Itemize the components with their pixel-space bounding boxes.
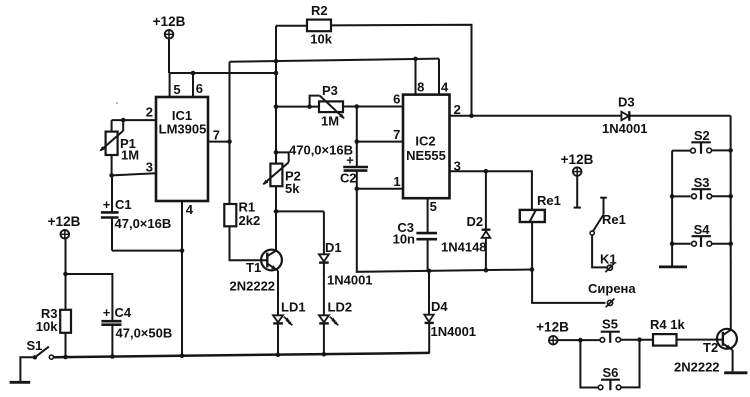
svg-text:C2: C2 [340,171,357,186]
power terminal +12V (left, R3/C4 branch) [61,230,70,239]
svg-text:S2: S2 [694,128,710,143]
wire IC1 pin 4 down to ground bus [181,201,183,356]
wire P2 bottom to T1 collector [275,186,277,250]
junction D4 / ground line [427,269,432,274]
svg-text:7: 7 [393,127,400,142]
junction S6 right branch [637,337,642,342]
svg-text:D4: D4 [431,299,448,314]
svg-text:7: 7 [213,128,220,143]
svg-text:Re1: Re1 [602,212,626,227]
wire IC1 pin 2 to P1 [112,119,156,121]
junction P1 wiper / pin 2 [121,118,126,123]
wire T2 emitter to ground [732,350,734,373]
switch S6 [598,380,621,391]
P1 wiper arrowhead [100,146,106,151]
switch S5 [600,332,620,343]
P3 wiper step wire [310,96,320,107]
svg-text:Re1: Re1 [537,193,561,208]
resistor R1 body [224,204,236,226]
power terminal +12V supply of IC1 [165,30,174,39]
wire IC2 pin 4 [438,59,440,95]
junction S4 / left column [670,241,675,246]
P1 wiper tie wire [122,120,124,131]
svg-text:2N2222: 2N2222 [230,279,276,294]
wire IC2 pin 7 [357,141,403,143]
junction S6 left branch [578,338,583,343]
wire LD1 to ground bus [277,323,279,354]
junction pin 8 / top link [413,57,418,62]
capacitor C4 plates [101,321,121,325]
ground (T2) [724,371,747,374]
transistor T1 2N2222 [261,250,282,271]
P1 wiper arrow diagonal [101,131,124,151]
junction LD1 / bus [276,352,281,357]
svg-text:+12В: +12В [48,214,81,229]
wire C3 bottom to ground line [427,239,429,271]
connector terminal K1 [605,263,614,272]
scan speck [116,102,118,104]
P3 wiper diagonal [320,96,344,119]
junction relay column / ground line [530,267,535,272]
svg-text:47,0×16В: 47,0×16В [115,216,172,231]
LED LD1 [273,315,292,325]
wire +12V terminal down to supply rail [168,39,170,73]
wire C4 bottom to bus [111,325,113,357]
wire pin6 line P3 left [276,106,319,108]
switch S2 [672,142,731,154]
switch S3 [672,189,731,200]
wire D3 to right column [629,115,730,117]
svg-text:2k2: 2k2 [239,213,261,228]
ground (S1) [10,381,31,384]
wire IC2 pin 5 to C3 [427,198,429,233]
svg-text:T2: T2 [703,340,718,355]
junction pin4 column / ground bus [180,353,185,358]
diode D2 1N4148 [482,171,491,271]
junction C2 column / pin7 line [355,139,360,144]
wire IC2 pin 2 output line [450,115,622,117]
wire top link to IC2 pins 8 and 4 [230,59,440,62]
wire IC1 pin 3 [112,173,156,175]
svg-text:2: 2 [146,105,153,120]
switch S1 [33,347,54,360]
svg-text:Сирена: Сирена [588,281,636,296]
switch S4 [672,236,731,247]
junction C4 / bus [110,354,115,359]
wire IC2 pin 1 [357,188,403,190]
svg-text:S1: S1 [27,338,43,353]
svg-text:K1: K1 [600,252,617,267]
resistor R4 body [653,334,677,346]
wire IC2 pin 3 to relay [450,171,532,210]
contact terminal tick [574,207,581,209]
wire branch to C4 [66,274,113,321]
wire S1 to ground [20,357,35,382]
svg-text:+12В: +12В [153,14,186,29]
svg-text:T1: T1 [246,260,261,275]
junction R3 node / C4 branch [63,272,68,277]
wire P1 top lead [111,120,113,132]
svg-text:R2: R2 [311,3,328,18]
wire S6 left leg [580,340,598,387]
svg-text:LD1: LD1 [281,300,306,315]
capacitor C2 plates [343,167,368,171]
junction column / pin6 line [274,104,279,109]
wire C2 column lower [357,171,532,272]
svg-text:D1: D1 [325,240,342,255]
svg-text:2: 2 [454,102,461,117]
transistor T2 2N2222 [717,329,737,350]
P2 wiper diagonal [263,162,288,184]
potentiometer P1 body [106,132,118,155]
wire C2 column upper [356,107,358,168]
svg-text:LD2: LD2 [328,300,353,315]
LED LD2 [319,315,338,325]
wire P1 bottom to pin 3 line [111,155,113,175]
svg-text:LM3905: LM3905 [159,122,207,137]
diode D1 1N4001 [319,211,329,262]
svg-text:1N4001: 1N4001 [327,273,373,288]
svg-text:D2: D2 [467,214,484,229]
wire +12V down through R3 node [65,239,67,310]
potentiometer P2 body [270,164,282,187]
wire bus end up to D4 [428,323,430,354]
svg-text:2N2222: 2N2222 [674,359,720,374]
wire R1 bottom to T1 base [230,226,268,260]
svg-text:+12В: +12В [561,152,594,167]
svg-text:C1: C1 [115,197,132,212]
svg-text:470,0×16В: 470,0×16В [289,143,353,158]
svg-text:3: 3 [454,159,461,174]
junction C1 / pin4 column [180,248,185,253]
svg-text:D3: D3 [618,94,635,109]
svg-text:10k: 10k [310,32,332,47]
junction column / P2 wiper [274,150,279,155]
op-amp timer IC1 LM3905 [156,97,208,201]
junction rail / R2 column [274,71,279,76]
diode D3 1N4001 [621,111,629,121]
svg-text:S4: S4 [694,222,711,237]
junction C2 column / pin1 line [355,187,360,192]
svg-text:5: 5 [430,199,437,214]
resistor R2 body [307,20,331,32]
junction R3 / bus [63,355,68,360]
wire R3 bottom to bus [65,333,67,357]
wire IC1 pin 7 [208,141,230,143]
wire P3 right to IC2 pin 6 [343,106,403,108]
ground bus wire [54,353,430,357]
junction S4 / right column [728,241,733,246]
resistor R3 body [60,310,71,333]
svg-text:1: 1 [393,174,400,189]
P2 wiper step wire [276,152,289,162]
wire left switch column [671,151,673,267]
wire R1 column up to top link [229,62,231,204]
svg-text:4: 4 [186,202,194,217]
junction S3 / left column [670,194,675,199]
wire S6 right leg [621,340,640,388]
wire C1 bottom lead [111,218,113,251]
svg-text:IC2: IC2 [415,133,435,148]
wire C1 to pin 4 column [112,250,182,252]
svg-text:47,0×50В: 47,0×50В [116,326,173,341]
junction R2 drop / pin 2 line [469,113,474,118]
P3 wiper arrowhead [339,114,344,119]
junction S3 / right column [728,194,733,199]
wire R4 to T1 base [677,339,723,341]
wire R2 right to pin2 drop [331,25,472,116]
svg-text:10n: 10n [393,231,415,246]
svg-text:8: 8 [417,80,424,95]
svg-text:+: + [103,305,111,320]
svg-text:1M: 1M [321,114,339,129]
svg-text:1N4001: 1N4001 [431,324,477,339]
wire IC1 pin 5 [169,73,171,97]
junction D2 / ground line [484,268,489,273]
junction D2 / pin 3 line [484,169,489,174]
relay coil Re1 [520,210,545,222]
svg-text:+12В: +12В [536,319,569,334]
svg-text:5k: 5k [285,181,300,196]
wire IC2 pin 8 [415,59,417,95]
svg-text:P3: P3 [322,83,338,98]
wire contact down to K1 [592,235,607,267]
connector terminal (siren) [606,299,615,308]
wire D1 to LD2 [323,263,325,316]
wire LD2 to ground bus [323,323,325,354]
svg-text:10k: 10k [36,319,58,334]
svg-text:4: 4 [441,80,449,95]
svg-text:NE555: NE555 [406,148,446,163]
wire right column (D3 to T2 collector) [730,116,732,330]
junction S2 / right column [728,148,733,153]
potentiometer P3 body [319,101,343,112]
svg-text:6: 6 [393,92,400,107]
svg-text:R4 1k: R4 1k [650,317,685,332]
wire +12V stub to contact [576,176,578,208]
power terminal +12V (S5 branch) [549,336,558,345]
wire relay bottom to siren line [532,222,605,303]
wire supply rail to R2/P2 column [169,72,276,74]
svg-text:1N4001: 1N4001 [602,121,648,136]
svg-text:S3: S3 [694,175,710,190]
wire branch to D1 [276,210,324,212]
wire +12V to S5 [558,339,601,341]
power terminal +12V (relay contact) [573,167,582,176]
svg-text:1M: 1M [121,148,139,163]
wire T1 emitter to LD1 [277,271,279,316]
wire R2/P2 column vertical [275,26,277,164]
timer IC2 NE555 [403,95,450,199]
junction C2 column / pin6 line [355,104,360,109]
capacitor C3 plates [416,233,437,239]
svg-text:+: + [103,197,111,212]
wire S5 to R4 [621,339,654,341]
ground (switch column) [659,265,687,268]
junction P2/T1/D1 branch [274,209,279,214]
svg-text:S5: S5 [602,317,618,332]
svg-text:6: 6 [196,81,203,96]
junction LD2 / bus [322,352,327,357]
svg-text:C4: C4 [115,305,132,320]
junction top link / R2 column [274,59,279,64]
junction pin7 / R1 column [227,139,232,144]
junction pin6 rail [191,71,196,76]
P2 wiper arrowhead [263,180,269,185]
svg-text:5: 5 [173,82,180,97]
svg-text:1N4148: 1N4148 [441,239,487,254]
diode D4 1N4001 [424,271,434,323]
svg-text:+: + [346,152,354,167]
svg-text:S6: S6 [602,365,618,380]
wire IC1 pin 6 [192,73,194,97]
relay contact Re1 [590,198,607,235]
svg-text:3: 3 [146,160,153,175]
junction P1/C1/pin3 [109,173,114,178]
junction P3 wiper tie [307,104,312,109]
wire C1 top lead [111,175,113,212]
capacitor C1 plates [101,212,119,217]
wire R2 left [276,25,307,27]
